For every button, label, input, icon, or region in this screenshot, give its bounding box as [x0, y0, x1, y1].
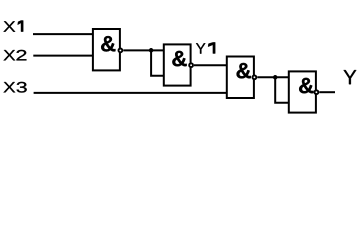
wire X3 to U3 input B: [34, 92, 227, 94]
wire junction J2 down to U4 input B: [275, 76, 289, 102]
gate U3 function label &: [237, 63, 251, 78]
gate U1 function label &: [101, 36, 115, 51]
wire U4 output Y: [319, 91, 335, 93]
gate U1 body: [93, 29, 120, 70]
wire X2 to U1 input B: [33, 55, 93, 57]
nand gate U4: [289, 71, 319, 112]
gate U4 body: [289, 71, 316, 112]
wire U3 output to U4 input A: [257, 76, 289, 78]
node J2: [273, 75, 278, 80]
wire U1 output to U2 input A: [123, 49, 164, 51]
label Y: [344, 70, 357, 84]
gate U3 body: [227, 57, 254, 99]
gate U1 output inversion bubble: [119, 49, 123, 53]
gate U2 function label &: [172, 51, 186, 66]
wire X1 to U1 input A: [33, 33, 93, 35]
gate U2 body: [164, 44, 191, 85]
nand gate U3: [227, 57, 256, 99]
nand gate U2: [164, 44, 193, 85]
wire U2 output Y1 to U3 input A: [194, 64, 227, 66]
gate U3 output inversion bubble: [253, 75, 257, 79]
nand gate U1: [93, 29, 122, 70]
gate U2 output inversion bubble: [189, 63, 193, 67]
label X1: [4, 21, 24, 32]
gate U4 function label &: [299, 78, 313, 93]
node J1: [149, 48, 154, 53]
label Y1: [196, 42, 215, 53]
gate U4 output inversion bubble: [315, 90, 319, 94]
wire junction J1 down to U2 input B: [151, 50, 164, 76]
label X3: [4, 82, 27, 93]
label X2: [4, 50, 27, 60]
